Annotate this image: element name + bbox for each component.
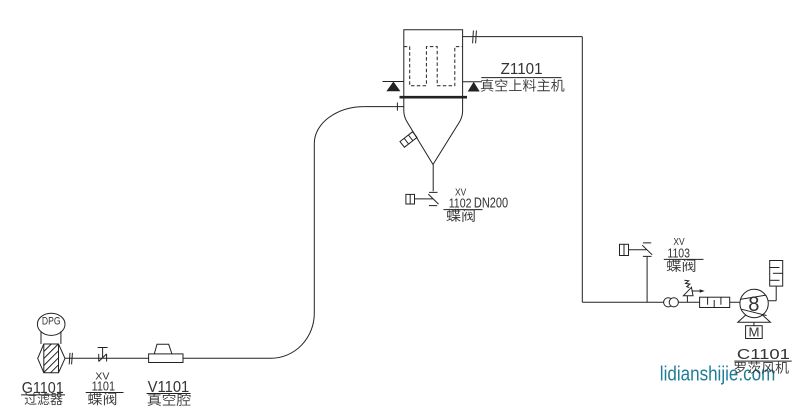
svg-text:1101: 1101 (92, 379, 115, 394)
svg-text:DPG: DPG (42, 316, 61, 328)
svg-text:M: M (749, 326, 760, 340)
svg-text:lidianshijie.com: lidianshijie.com (660, 364, 776, 386)
svg-text:DN200: DN200 (474, 196, 508, 212)
svg-text:1102: 1102 (449, 195, 472, 210)
svg-text:8: 8 (748, 293, 759, 316)
svg-text:C1101: C1101 (737, 346, 790, 363)
svg-text:1103: 1103 (667, 245, 690, 260)
svg-text:Z1101: Z1101 (501, 61, 543, 78)
svg-text:V1101: V1101 (148, 379, 190, 396)
